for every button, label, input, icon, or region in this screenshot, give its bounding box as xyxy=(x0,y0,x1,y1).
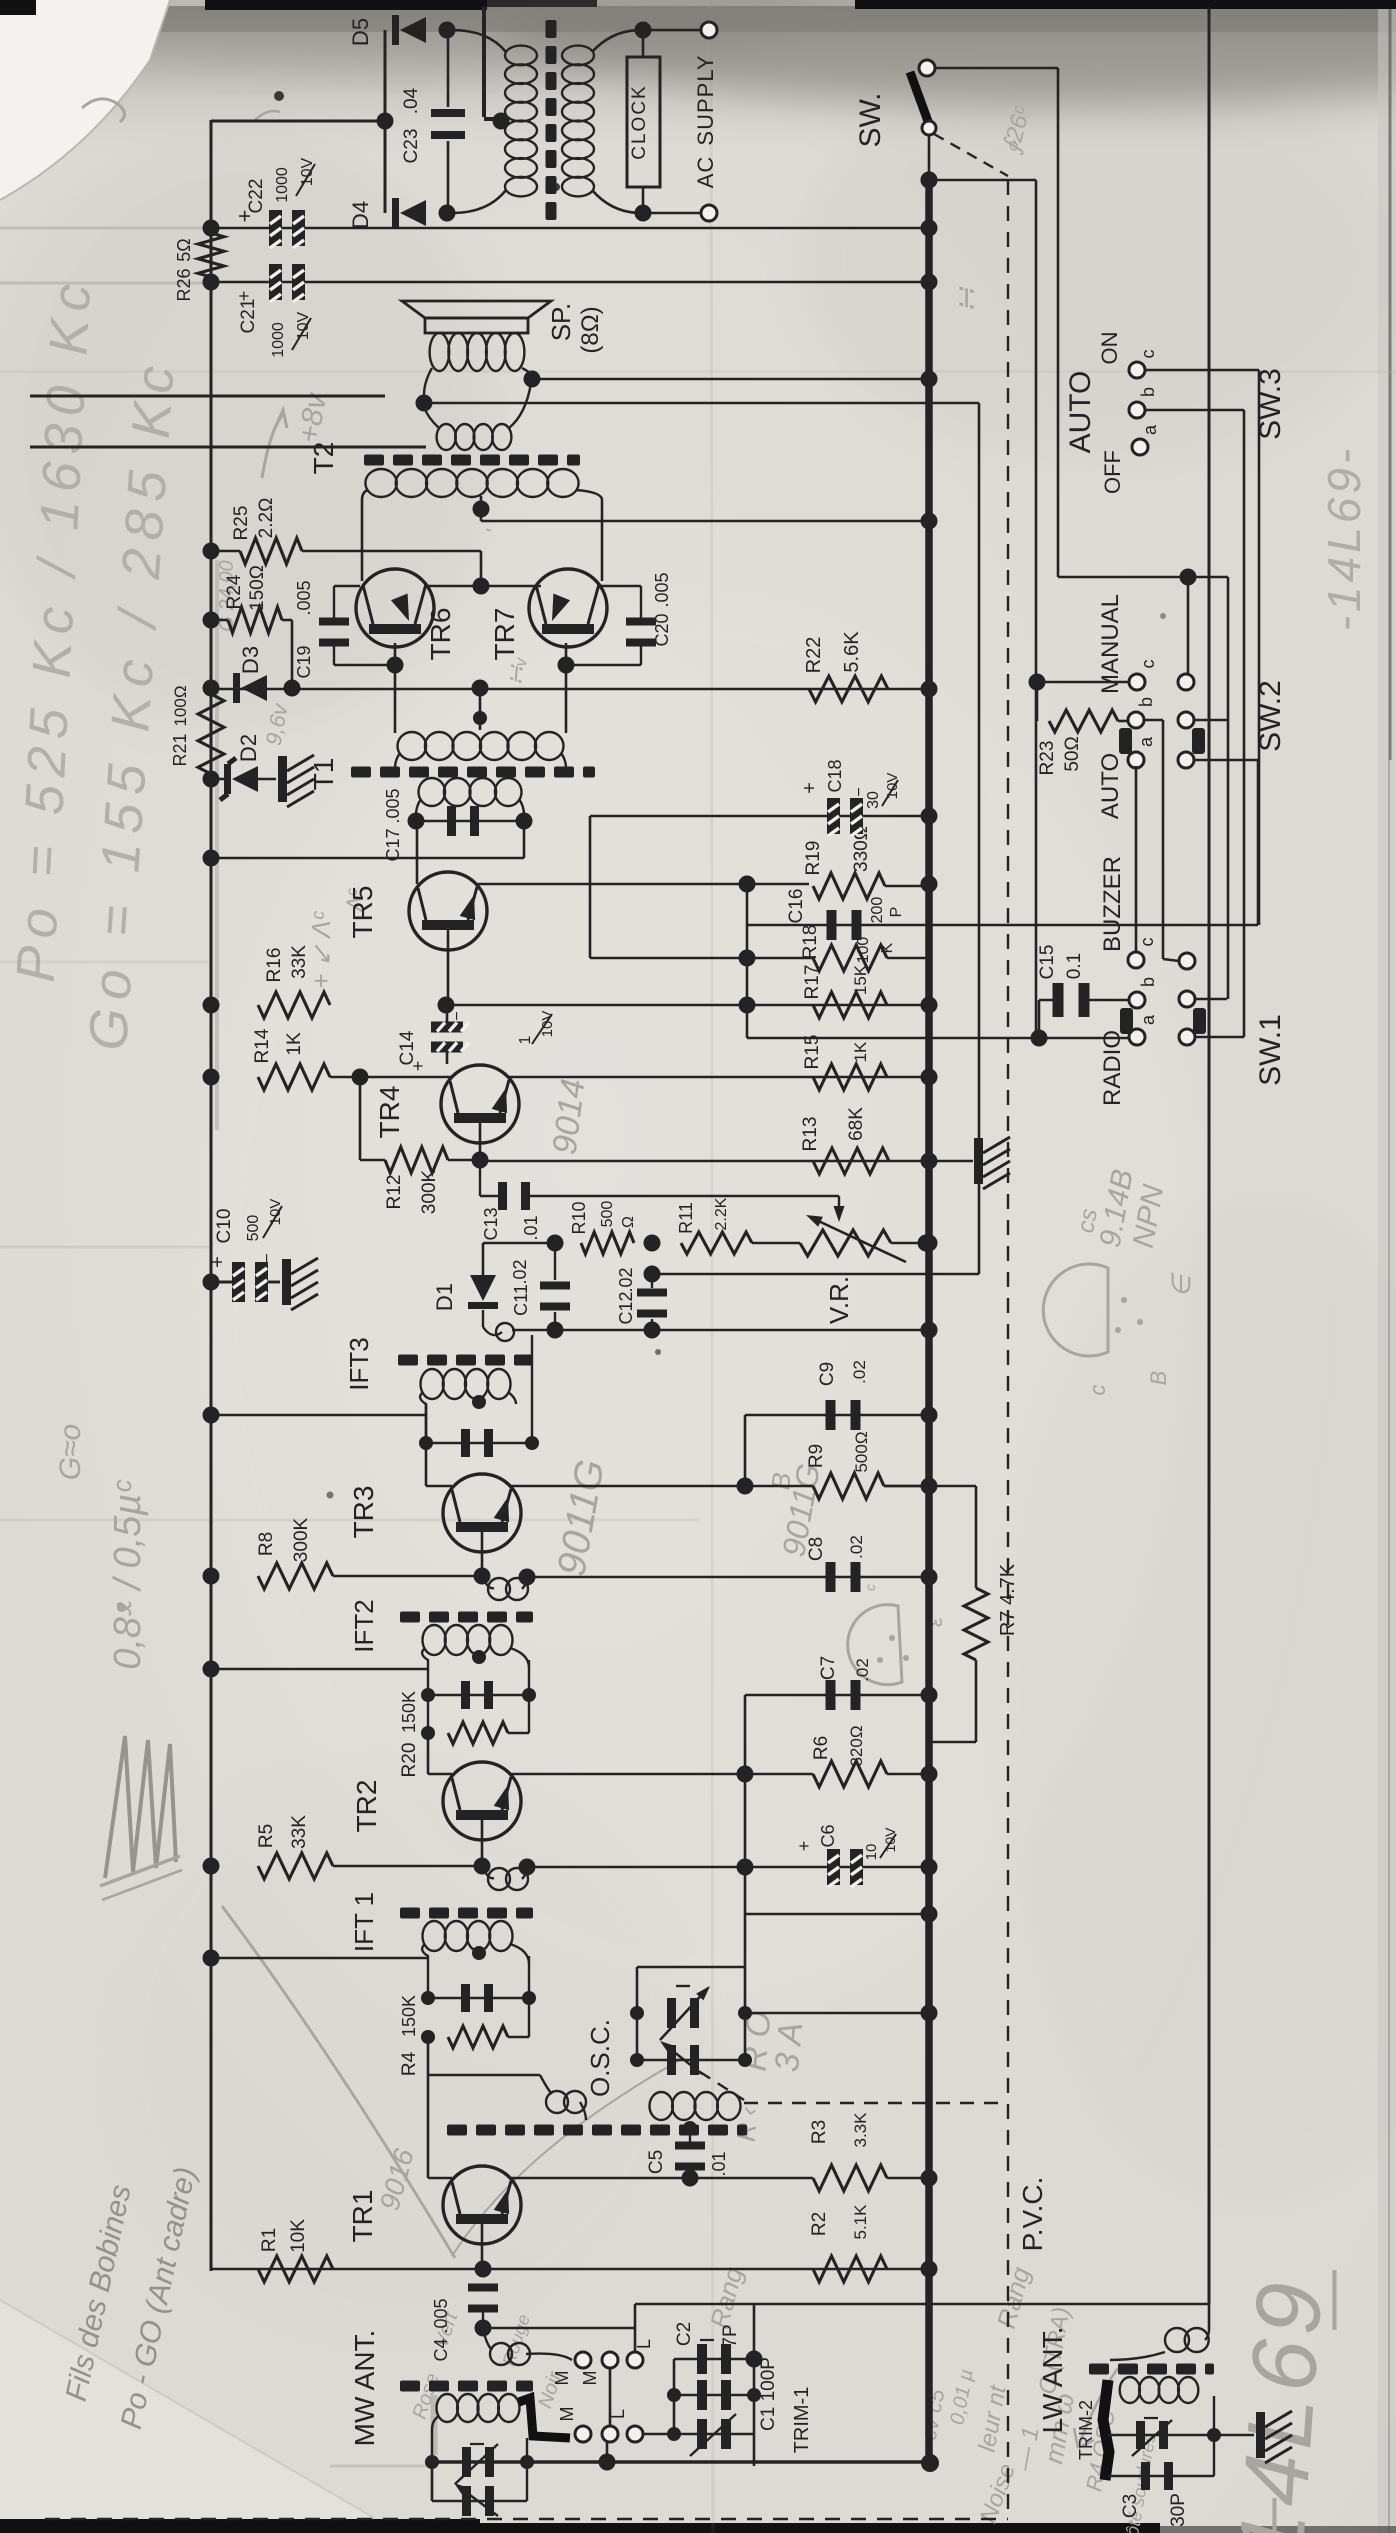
svg-text:Β: Β xyxy=(1146,1371,1171,1386)
wire M2 down xyxy=(606,2442,609,2462)
node TR3 base row xyxy=(474,1568,491,1585)
svg-text:′: ′ xyxy=(483,528,505,532)
pencil smudge top-left xyxy=(82,99,125,122)
resistor R8 xyxy=(258,1563,333,1589)
svg-text:P.V.C.: P.V.C. xyxy=(1017,2177,1048,2252)
svg-text:5Ω: 5Ω xyxy=(174,238,194,261)
trimmer bank right rail xyxy=(753,2304,756,2466)
svg-text:5.1K: 5.1K xyxy=(851,2204,870,2240)
capacitor C2 xyxy=(674,2358,754,2360)
wire emitter bus xyxy=(424,585,541,588)
svg-text:D4: D4 xyxy=(348,201,373,229)
wire C18 to R18 xyxy=(589,816,592,958)
dashed bottom line xyxy=(45,2518,1008,2520)
wire SW3 b xyxy=(1145,409,1244,412)
variable capacitor MW 2 xyxy=(431,2462,433,2501)
svg-text:K: K xyxy=(879,942,896,953)
svg-text:∺: ∺ xyxy=(950,286,983,313)
scan edge top xyxy=(0,0,36,15)
node T1 pri right xyxy=(516,813,533,830)
wire SW2 b col1 to SW1 xyxy=(1144,719,1163,722)
svg-text:c: c xyxy=(1085,1385,1110,1396)
resistor R14 xyxy=(258,1064,330,1090)
LW ANT winding xyxy=(1120,2377,1140,2403)
svg-text:33K: 33K xyxy=(289,945,310,979)
wire L2 to bank xyxy=(643,2433,674,2436)
resistor R2 xyxy=(813,2256,887,2282)
capacitor C12 xyxy=(651,1274,653,1288)
node D2 row xyxy=(203,771,220,788)
wire C9 row xyxy=(745,1414,929,1417)
node rail junction xyxy=(921,1235,938,1252)
wire TR5 base xyxy=(447,929,450,1005)
resistor R7 xyxy=(884,1485,976,1488)
svg-text:O.S.C.: O.S.C. xyxy=(585,2019,615,2097)
svg-text:SW.1: SW.1 xyxy=(1254,1014,1287,1086)
svg-text:.02: .02 xyxy=(853,1658,872,1682)
svg-text:ᶜ: ᶜ xyxy=(863,1584,885,1592)
node rail end xyxy=(921,2454,939,2472)
svg-text:7P: 7P xyxy=(720,2324,741,2347)
wire center tap lead xyxy=(482,7,486,117)
resistor R19 xyxy=(813,873,885,899)
wire IFT2 to TR2 xyxy=(427,1733,430,1774)
capacitor C4 xyxy=(468,2284,498,2292)
svg-text:+: + xyxy=(408,1061,428,1072)
svg-text:50Ω: 50Ω xyxy=(1062,736,1083,771)
wire AC bottom xyxy=(641,212,700,215)
capacitor C14 xyxy=(446,1005,449,1023)
ground at D2 xyxy=(278,756,287,802)
svg-text:R20: R20 xyxy=(399,1743,420,1778)
LW tank right xyxy=(1213,2396,1215,2476)
svg-text:ON: ON xyxy=(1097,332,1122,365)
wire x1036 column xyxy=(1035,180,1038,1037)
svg-text:BUZZER: BUZZER xyxy=(1099,856,1126,952)
svg-text:C19: C19 xyxy=(294,645,314,678)
svg-text:R10: R10 xyxy=(569,1201,589,1234)
node C5 bottom xyxy=(682,2170,699,2187)
wire rectifier rail xyxy=(384,30,387,213)
wire SW2 c col2 riser xyxy=(1187,577,1190,674)
node TR2 row xyxy=(737,1766,754,1783)
node rail junction xyxy=(921,2170,938,2187)
trimmer bank left rail xyxy=(673,2359,676,2434)
node rail junction xyxy=(921,1569,938,1586)
variable capacitor osc 2 xyxy=(637,2059,745,2062)
svg-text:AUTO: AUTO xyxy=(1064,371,1097,454)
resistor R26 xyxy=(198,233,224,277)
svg-text:10V: 10V xyxy=(295,311,312,340)
svg-text:C1 100P: C1 100P xyxy=(758,2357,779,2431)
svg-text:C22: C22 xyxy=(246,179,267,214)
svg-text:15K: 15K xyxy=(851,964,870,995)
node TR5 base R17 xyxy=(438,997,455,1014)
wire SW2 a link xyxy=(1135,766,1138,952)
transistor TR6 xyxy=(356,569,434,647)
wire T1 left to TR5 xyxy=(416,821,419,884)
svg-text:AC: AC xyxy=(693,156,718,189)
transformer T power core xyxy=(546,20,557,38)
svg-text:C16: C16 xyxy=(786,889,807,924)
svg-text:200: 200 xyxy=(869,897,886,924)
wire C12 tap row xyxy=(644,1266,661,1283)
svg-text:M: M xyxy=(557,2407,577,2422)
svg-text:+: + xyxy=(794,1841,814,1852)
svg-text:C23: C23 xyxy=(401,129,422,164)
resistor R9 xyxy=(813,1473,884,1499)
resistor R5 xyxy=(258,1853,333,1879)
svg-text:150K: 150K xyxy=(399,1691,419,1733)
resistor R24 xyxy=(211,619,228,622)
node rail junction xyxy=(921,1069,938,1086)
wire x747 column xyxy=(746,884,749,1006)
pencil retrace rail xyxy=(215,560,219,1130)
node SW rail top xyxy=(921,172,938,189)
svg-text:V.R.: V.R. xyxy=(824,1276,854,1324)
svg-text:.01: .01 xyxy=(521,1215,541,1240)
node row 577 xyxy=(1180,569,1197,586)
capacitor C17 xyxy=(416,820,524,823)
svg-text:b: b xyxy=(1138,387,1158,397)
node T1 pri left xyxy=(408,813,425,830)
variable capacitor MW 1 xyxy=(462,2447,471,2477)
svg-text:R13: R13 xyxy=(800,1117,821,1152)
resistor R16 xyxy=(258,992,330,1018)
capacitor C13 xyxy=(479,1160,481,1196)
wire osc row to rail xyxy=(745,2012,929,2015)
svg-text:R3: R3 xyxy=(809,2120,830,2144)
svg-text:TR4: TR4 xyxy=(374,1086,405,1139)
wire AC top xyxy=(641,29,700,32)
svg-text:TR3: TR3 xyxy=(348,1486,379,1539)
wire R25 drop xyxy=(480,551,483,586)
wire C15 row xyxy=(1039,999,1057,1002)
svg-text:G≈o: G≈o xyxy=(54,1424,87,1480)
capacitor C10 xyxy=(203,1274,220,1291)
node rail junction xyxy=(921,681,938,698)
svg-text:2.2Ω: 2.2Ω xyxy=(256,498,277,539)
dashed coupling line xyxy=(934,134,1008,176)
capacitor C9 xyxy=(826,1400,836,1430)
svg-text:R24: R24 xyxy=(224,574,245,609)
wire R13 row xyxy=(480,1160,929,1163)
svg-text:(8Ω): (8Ω) xyxy=(577,306,604,353)
wire SW riser xyxy=(1057,68,1060,577)
svg-text:68K: 68K xyxy=(846,1107,867,1141)
node rail junction xyxy=(921,1478,938,1495)
svg-text:R12: R12 xyxy=(384,1175,405,1210)
svg-text:C2: C2 xyxy=(674,2322,695,2346)
wire C18 row xyxy=(590,815,929,818)
node rail junction xyxy=(921,220,938,237)
svg-text:33K: 33K xyxy=(289,1815,310,1849)
trimmer TRIM-1 xyxy=(674,2433,754,2435)
svg-text:L: L xyxy=(634,2339,654,2349)
wire rail bottom row xyxy=(432,2462,930,2464)
capacitor C15 xyxy=(1053,983,1064,1017)
capacitor C7 xyxy=(826,1680,836,1710)
svg-text:RADIO: RADIO xyxy=(1099,1030,1126,1106)
wire switch link xyxy=(609,2368,612,2426)
potentiometer VR xyxy=(752,1242,800,1245)
wire TR6 collector xyxy=(361,573,364,581)
wire C13 to VR arrow xyxy=(530,1195,839,1197)
wire left rail xyxy=(210,120,213,2271)
svg-text:M: M xyxy=(552,2371,572,2386)
svg-text:MW ANT.: MW ANT. xyxy=(349,2330,380,2447)
svg-text:LW ANT.: LW ANT. xyxy=(1037,2327,1068,2434)
node TR4 base node xyxy=(352,1069,369,1086)
node osc mid right xyxy=(738,2053,752,2067)
node emitter bus xyxy=(473,578,490,595)
svg-text:R6: R6 xyxy=(811,1736,832,1760)
svg-text:C17: C17 xyxy=(383,828,403,861)
capacitor C23 xyxy=(447,30,450,107)
svg-text:R17: R17 xyxy=(802,965,823,1000)
resistor R17 xyxy=(813,992,887,1018)
svg-text:3.3K: 3.3K xyxy=(851,2112,870,2148)
node rail junction xyxy=(921,997,938,1014)
diode D1 xyxy=(482,1243,485,1276)
svg-text:C6: C6 xyxy=(818,1824,838,1847)
diode D5 xyxy=(30,395,385,398)
svg-text:.02: .02 xyxy=(850,1360,869,1384)
svg-text:1000: 1000 xyxy=(274,167,291,203)
MW ANT heavy tap xyxy=(519,2398,570,2438)
transistor TR4 xyxy=(441,1065,519,1143)
node R10 R11 xyxy=(644,1235,661,1252)
transformer T2 secondary xyxy=(437,424,456,450)
ground at C10 xyxy=(282,1259,291,1305)
osc link curl xyxy=(540,2075,552,2094)
svg-text:C11: C11 xyxy=(511,1284,531,1316)
svg-text:c: c xyxy=(1137,938,1157,947)
svg-text:+: + xyxy=(234,291,254,302)
MW ANT core xyxy=(400,2381,420,2392)
svg-text:C10: C10 xyxy=(214,1209,235,1244)
oscillator tank top xyxy=(637,1966,745,1969)
svg-text:.005: .005 xyxy=(652,572,672,607)
wire R12 column xyxy=(359,1077,362,1160)
svg-text:R26: R26 xyxy=(174,268,194,301)
svg-text:D1: D1 xyxy=(432,1283,457,1311)
trimmer TRIM-2 cap xyxy=(1108,2434,1214,2436)
svg-text:.005: .005 xyxy=(383,788,403,823)
terminal M2 row2 xyxy=(602,2426,618,2442)
svg-text:10V: 10V xyxy=(884,773,901,800)
svg-text:OFF: OFF xyxy=(1100,450,1125,494)
wire TR7 collector xyxy=(601,573,604,581)
svg-text:5.6K: 5.6K xyxy=(841,631,863,673)
wire C16 riser xyxy=(1257,760,1260,925)
dashed gang line xyxy=(700,2072,744,2100)
wire IFT1 feed xyxy=(211,1957,428,1960)
MW link curl xyxy=(483,2328,492,2350)
wire x1228 column xyxy=(1227,577,1230,999)
wire ground row detector xyxy=(483,1327,502,1335)
wire C7 riser xyxy=(744,1695,747,1774)
node M2 row xyxy=(599,2454,616,2471)
wire SW1 a col2 xyxy=(1195,1036,1244,1039)
wire x1259 column xyxy=(1258,370,1261,925)
node IFT3 tap xyxy=(472,1395,486,1409)
wire TR1 base xyxy=(481,2224,484,2266)
wire R15 row xyxy=(508,1076,929,1079)
wire IFT2 feed xyxy=(211,1668,428,1671)
MW tank left xyxy=(432,2416,439,2501)
transistor TR1 xyxy=(443,2166,521,2244)
svg-text:Ω: Ω xyxy=(620,1216,637,1228)
node TR7 base xyxy=(558,657,575,674)
capacitor C19 xyxy=(333,586,335,619)
svg-text:D2: D2 xyxy=(236,734,261,762)
svg-text:TRIM-2: TRIM-2 xyxy=(1076,2400,1096,2460)
svg-text:—: — xyxy=(1236,2498,1303,2533)
svg-text:IFT2: IFT2 xyxy=(349,1599,379,1652)
transistor TR3 xyxy=(443,1474,521,1552)
svg-text:IFT3: IFT3 xyxy=(344,1337,374,1390)
svg-text:C9: C9 xyxy=(817,1362,838,1386)
svg-text:SW.2: SW.2 xyxy=(1254,680,1287,752)
wire TR3 left xyxy=(426,1485,452,1488)
svg-text:1K: 1K xyxy=(284,1032,305,1056)
node TR5 row xyxy=(739,876,756,893)
node rail junction xyxy=(921,1766,938,1783)
svg-text:C5: C5 xyxy=(646,2150,667,2174)
svg-text:C18: C18 xyxy=(825,759,845,792)
clock box xyxy=(642,30,645,57)
svg-text:10K: 10K xyxy=(288,2219,309,2253)
wire row 1914 xyxy=(745,1913,929,1916)
wire center tap to rail xyxy=(480,509,483,521)
node TR3 row xyxy=(737,1478,754,1495)
svg-text:30P: 30P xyxy=(1168,2493,1189,2527)
svg-text:R8: R8 xyxy=(256,1532,277,1556)
node osc top left xyxy=(630,2006,644,2020)
wire C6 row xyxy=(527,1866,929,1869)
svg-text:C15: C15 xyxy=(1037,945,1058,980)
resistor R23 xyxy=(1036,682,1039,721)
capacitor C11 xyxy=(554,1243,556,1280)
svg-text:0.1: 0.1 xyxy=(1064,953,1085,979)
MW ANT winding xyxy=(437,2394,458,2422)
svg-text:C20: C20 xyxy=(652,613,672,646)
svg-text:—: — xyxy=(1296,2270,1363,2330)
wire TR1 collector row xyxy=(510,2177,813,2180)
resistor R20 xyxy=(427,1695,429,1733)
wire SW top xyxy=(935,67,1058,70)
wire main supply rail xyxy=(925,180,933,2463)
node TR1 base xyxy=(475,2261,492,2278)
wire IFT3 feed xyxy=(211,1414,426,1417)
wire antenna jog xyxy=(634,2304,637,2360)
coupling curl IFT2 top xyxy=(482,1576,494,1588)
transistor TR5 xyxy=(409,872,487,950)
node C6 node xyxy=(737,1859,754,1876)
transformer T2 core xyxy=(364,455,384,466)
node LW mid xyxy=(1207,2428,1221,2442)
terminal M row2 xyxy=(575,2426,591,2442)
svg-text:.02: .02 xyxy=(847,1535,866,1559)
node rail junction xyxy=(921,371,938,388)
svg-text:820Ω: 820Ω xyxy=(847,1725,866,1766)
node rail junction xyxy=(921,1906,938,1923)
node rail junction xyxy=(921,1322,938,1339)
svg-text:R9: R9 xyxy=(806,1444,827,1468)
resistor R13 xyxy=(813,1148,889,1174)
svg-text:b: b xyxy=(1136,697,1156,707)
node C21 row left xyxy=(203,274,220,291)
svg-text:R14: R14 xyxy=(252,1028,273,1063)
node R10 left xyxy=(547,1235,564,1252)
wire antenna drop xyxy=(1208,7,1211,2304)
node rail junction xyxy=(921,172,938,189)
svg-text:R18: R18 xyxy=(800,925,821,960)
wire x1244 column xyxy=(1243,410,1246,1037)
node rail junction xyxy=(921,2005,938,2022)
svg-text:10V: 10V xyxy=(299,157,316,186)
node R18 left xyxy=(739,950,756,967)
wire SW3 c xyxy=(1145,369,1259,372)
wire C7 row xyxy=(745,1694,929,1697)
wire detector row xyxy=(483,1242,555,1245)
svg-text:L: L xyxy=(608,2409,628,2419)
node T1 tap bias xyxy=(472,680,489,697)
node center tap xyxy=(493,113,510,130)
LW link curl xyxy=(1208,2304,1211,2330)
node osc mid left xyxy=(630,2053,644,2067)
svg-text:.02: .02 xyxy=(616,1267,636,1292)
svg-text:R16: R16 xyxy=(264,948,285,983)
wire x747 to SW1 drop xyxy=(746,1006,749,1038)
node TR4 base xyxy=(472,1152,489,1169)
wire TR5 collector row xyxy=(476,883,809,886)
node R17 left xyxy=(739,997,756,1014)
wire SW2 c row xyxy=(1037,681,1129,684)
capacitor C16 xyxy=(827,910,837,940)
svg-text:.01: .01 xyxy=(709,2151,729,2176)
svg-text:TR7: TR7 xyxy=(489,608,520,661)
wire R18 row xyxy=(590,957,813,960)
node curl right IFT1 xyxy=(519,1859,536,1876)
wire R17 row xyxy=(446,1004,929,1007)
MW tank right xyxy=(526,2438,528,2462)
wire antenna row xyxy=(635,2303,1209,2306)
svg-text:300K: 300K xyxy=(291,1517,312,1562)
svg-text:D3: D3 xyxy=(238,646,263,674)
node rectifier output xyxy=(377,113,394,130)
diode D2 zener xyxy=(211,778,226,781)
wire SP return drop xyxy=(978,403,981,1243)
node SP right xyxy=(524,371,541,388)
node rail junction xyxy=(921,1153,938,1170)
terminal M2 row1 xyxy=(602,2352,618,2368)
node osc top right xyxy=(738,2006,752,2020)
wire C9 riser xyxy=(744,1415,747,1486)
diode D4 xyxy=(213,395,385,398)
wire TR4 base lead xyxy=(479,1123,482,1160)
capacitor IFT2 tank xyxy=(428,1694,529,1696)
switch SW arm xyxy=(919,60,935,76)
node C4 bottom xyxy=(475,2320,492,2337)
node C22 row left xyxy=(203,220,220,237)
variable capacitor osc 1 xyxy=(667,1998,676,2028)
node SP left xyxy=(416,395,433,412)
node rail junction xyxy=(921,2261,938,2278)
svg-text:R5: R5 xyxy=(256,1824,277,1848)
wire SW2 b col2 xyxy=(1194,719,1228,722)
